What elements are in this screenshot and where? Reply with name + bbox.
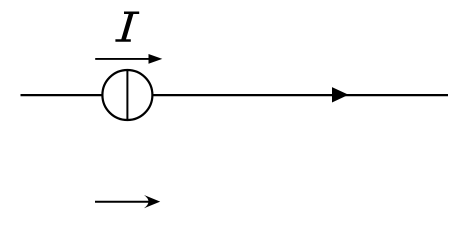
current source I1 (circle with vertical bar) (102, 70, 152, 120)
label I (115, 12, 139, 42)
arrowhead on wire (current direction) (332, 87, 349, 102)
arrow above source (current reference arrow) (95, 54, 162, 64)
wire left segment (21, 94, 104, 96)
reference arrow below (95, 195, 160, 208)
wire right segment (152, 94, 448, 96)
